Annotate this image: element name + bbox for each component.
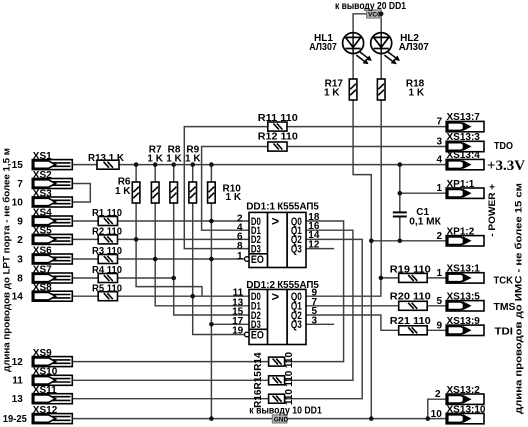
svg-text:R3 110: R3 110 xyxy=(92,246,122,257)
resistor R21 xyxy=(399,326,428,335)
node rail-R6 xyxy=(134,162,139,167)
svg-text:GND: GND xyxy=(274,417,289,424)
resistor R14 xyxy=(269,357,285,366)
resistor R10 vertical xyxy=(208,182,216,203)
wire XS1 to R13 xyxy=(71,164,97,166)
resistor R4 xyxy=(98,274,117,283)
svg-text:XS13:2: XS13:2 xyxy=(447,385,481,396)
wire XS10 to R15 xyxy=(71,379,269,381)
svg-text:к выводу 10 DD1: к выводу 10 DD1 xyxy=(249,406,322,417)
wire R3 to DD1:1 pin1 EO xyxy=(118,258,245,260)
node rail-R10 xyxy=(209,162,214,167)
svg-text:8: 8 xyxy=(17,273,23,284)
svg-text:XS1: XS1 xyxy=(33,151,52,162)
net label GND xyxy=(272,415,288,424)
resistor R7 vertical xyxy=(151,182,159,203)
svg-text:XS11: XS11 xyxy=(33,385,57,396)
node x211-D3b xyxy=(209,322,214,327)
svg-text:9: 9 xyxy=(17,216,23,227)
svg-text:9: 9 xyxy=(436,320,442,331)
resistor R8 vertical xyxy=(170,182,178,203)
net label VCC xyxy=(367,10,382,19)
svg-text:XS2: XS2 xyxy=(33,170,52,181)
wire R6 top lead xyxy=(135,165,137,182)
svg-text:XS6: XS6 xyxy=(33,245,52,256)
node XP11 xyxy=(398,191,403,196)
svg-text:1 K: 1 K xyxy=(409,88,425,99)
node R8-R4 xyxy=(171,276,176,281)
resistor R3 xyxy=(98,255,117,264)
svg-text:DD1:1: DD1:1 xyxy=(246,202,275,213)
svg-text:14: 14 xyxy=(12,292,24,303)
svg-text:>: > xyxy=(272,289,280,304)
svg-text:XS13:3: XS13:3 xyxy=(447,132,481,143)
connector XS1 xyxy=(32,160,72,170)
connector XS2 xyxy=(32,179,72,189)
svg-text:4: 4 xyxy=(436,155,442,166)
wire R7 top lead xyxy=(154,165,156,182)
svg-text:19-25: 19-25 xyxy=(3,414,27,425)
connector XS13:4 xyxy=(446,159,484,169)
wire R12 to XS13:3 TDO xyxy=(287,146,446,148)
svg-text:R20 110: R20 110 xyxy=(390,292,431,303)
wire DD1:2 Q0 pin9 to R19 TCK xyxy=(306,278,381,296)
LED HL1 xyxy=(343,33,372,65)
node rail-C1 xyxy=(398,162,403,167)
connector XS11 xyxy=(32,394,72,404)
svg-text:АЛ307: АЛ307 xyxy=(309,42,337,53)
wire VCC top bus xyxy=(353,14,381,33)
LED HL2 xyxy=(371,33,400,65)
svg-text:10: 10 xyxy=(431,409,443,420)
svg-text:длина проводов до LPT порта -: длина проводов до LPT порта - не более 1… xyxy=(2,148,12,372)
wire DD1:2 Q3 pin3 stub xyxy=(306,323,334,325)
svg-text:XS10: XS10 xyxy=(33,367,58,378)
svg-text:R13 1 K: R13 1 K xyxy=(88,153,125,164)
svg-text:12: 12 xyxy=(308,239,320,250)
connector XP1:1 xyxy=(446,188,484,198)
wire R19 to XS13:1 xyxy=(427,277,446,279)
wire R11 to XS13:7 xyxy=(287,126,446,128)
svg-text:11: 11 xyxy=(12,376,23,387)
IC DD1:2 K555AP5 xyxy=(245,289,307,345)
svg-text:+3.3V: +3.3V xyxy=(487,158,525,174)
svg-text:XS5: XS5 xyxy=(33,226,52,237)
capacitor C1 xyxy=(393,212,407,216)
wire R9 top lead xyxy=(192,165,194,182)
resistor R11 xyxy=(268,122,287,131)
resistor R16 xyxy=(269,394,285,403)
connector XS13:3 xyxy=(446,141,484,151)
node TCK-R18 xyxy=(379,276,384,281)
resistor R13 xyxy=(97,160,119,169)
node C1-GND xyxy=(398,239,403,244)
svg-text:2: 2 xyxy=(17,235,23,246)
connector XS8 xyxy=(32,291,72,301)
svg-text:DD1:2: DD1:2 xyxy=(246,280,275,291)
node R7-R3 xyxy=(153,257,158,262)
svg-text:XP1:1: XP1:1 xyxy=(447,179,475,190)
connector XS6 xyxy=(32,254,72,264)
svg-text:10: 10 xyxy=(12,197,24,208)
svg-text:Q3: Q3 xyxy=(291,319,302,331)
svg-text:2: 2 xyxy=(436,231,442,242)
svg-text:XS13:1: XS13:1 xyxy=(447,264,481,275)
svg-text:R1 110: R1 110 xyxy=(92,208,122,219)
svg-text:XS4: XS4 xyxy=(33,207,52,218)
connector XS13:10 xyxy=(446,413,484,423)
resistor R20 xyxy=(399,301,428,310)
wire XS13:2 jog to GND rail xyxy=(428,399,446,418)
svg-text:7: 7 xyxy=(17,179,23,190)
wire XS5 to R2 xyxy=(71,238,99,240)
svg-text:XS3: XS3 xyxy=(33,188,52,199)
svg-text:R15: R15 xyxy=(253,371,264,390)
svg-text:19: 19 xyxy=(232,326,244,337)
wire R11 left lead to DD1:1 pin8 D3 xyxy=(184,127,267,249)
node R6-R2 xyxy=(134,237,139,242)
wire R6 column to DD1:2 pin11 jog xyxy=(136,203,202,296)
resistor R15 xyxy=(269,376,285,385)
svg-text:к выводу 20 DD1: к выводу 20 DD1 xyxy=(335,1,406,12)
connector XP1:2 xyxy=(446,236,484,246)
svg-text:R14: R14 xyxy=(253,352,264,371)
svg-text:TMS: TMS xyxy=(494,301,516,313)
svg-text:3: 3 xyxy=(312,315,318,326)
wire R1 to DD1:1 pin2 D0 xyxy=(118,220,250,222)
wire R21 to XS13:9 xyxy=(427,329,446,331)
svg-text:EO: EO xyxy=(251,330,264,342)
wire R2 to DD1:1 pin6 D2 xyxy=(118,238,250,240)
svg-text:1 K: 1 K xyxy=(324,88,340,99)
svg-text:XS13:4: XS13:4 xyxy=(447,150,481,161)
svg-text:7: 7 xyxy=(436,117,442,128)
connector XS13:5 xyxy=(446,301,484,311)
svg-text:1: 1 xyxy=(436,268,442,279)
resistor R19 xyxy=(399,273,428,282)
wire GND bottom rail xyxy=(71,418,447,420)
svg-text:3: 3 xyxy=(436,137,442,148)
connector XS10 xyxy=(32,375,72,385)
svg-text:EO: EO xyxy=(251,254,264,266)
wire XS6 to R3 xyxy=(71,258,99,260)
wire DD1:2 pin17 D3 from x211 column xyxy=(211,323,249,325)
svg-text:TDO: TDO xyxy=(494,140,513,152)
svg-text:АЛ307: АЛ307 xyxy=(399,42,429,53)
node rail-R8 xyxy=(171,162,176,167)
wire R10 bottom lead xyxy=(210,203,212,221)
svg-text:XS8: XS8 xyxy=(33,283,52,294)
wire XS9 to R14 xyxy=(71,361,269,363)
svg-text:5: 5 xyxy=(436,296,442,307)
wire rail to C1 xyxy=(399,165,401,212)
svg-text:R2 110: R2 110 xyxy=(92,227,122,238)
wire HL1 to R17 xyxy=(352,54,354,79)
svg-text:1 K: 1 K xyxy=(226,192,242,203)
svg-text:13: 13 xyxy=(12,394,24,405)
wire +3.3V rail xyxy=(119,164,446,166)
connector XS13:9 xyxy=(446,325,484,335)
svg-text:длина проводов до ИМС - не бол: длина проводов до ИМС - не более 15 см xyxy=(514,183,524,414)
wire DD1:2 Q2 pin5 to R21 TDI xyxy=(306,315,399,330)
node rail-R9 xyxy=(190,162,195,167)
svg-text:>: > xyxy=(272,213,280,228)
connector XS12 xyxy=(32,414,72,424)
node R9-R5 xyxy=(190,294,195,299)
wire R10 column xyxy=(210,165,212,182)
wire DD1:1 Q2 pin14 to R16 xyxy=(285,239,363,398)
wire XS2-XS3 loop xyxy=(71,184,91,203)
wire R20 to XS13:5 xyxy=(427,305,446,307)
svg-text:110: 110 xyxy=(284,370,295,387)
svg-text:XS13:7: XS13:7 xyxy=(447,112,481,123)
wire node column x211 to GND rail xyxy=(210,221,212,419)
svg-text:XS13:9: XS13:9 xyxy=(447,316,481,327)
svg-text:TDI: TDI xyxy=(495,326,514,338)
svg-text:XS12: XS12 xyxy=(33,405,58,416)
wire DD1:1 Q0 pin18 to R14 xyxy=(285,221,344,362)
svg-text:XS7: XS7 xyxy=(33,264,52,275)
wire C1 to GND line xyxy=(399,217,401,241)
node rail-R7 xyxy=(153,162,158,167)
wire XS7 to R4 xyxy=(71,277,99,279)
svg-text:Q3: Q3 xyxy=(291,243,302,255)
wire XP1:1 branch xyxy=(400,192,446,194)
connector XS7 xyxy=(32,273,72,283)
wire TCK node to R19 xyxy=(381,277,399,279)
resistor R2 xyxy=(98,235,117,244)
node XS132-GND xyxy=(426,416,431,421)
node x211-EO1 xyxy=(209,257,214,262)
wire XS8 to R5 xyxy=(71,295,99,297)
node R10-R1 xyxy=(209,219,214,224)
wire R18 to TCK node xyxy=(380,100,382,278)
wire GND to XP1:2 xyxy=(371,240,446,242)
node GND-rail2 xyxy=(369,416,374,421)
svg-text:0,1 МК: 0,1 МК xyxy=(409,217,441,228)
resistor R5 xyxy=(98,292,117,301)
svg-text:XS13:10: XS13:10 xyxy=(447,405,486,416)
node GND-XP12 xyxy=(369,239,374,244)
connector XS13:2 xyxy=(446,394,484,404)
svg-text:XS9: XS9 xyxy=(33,348,52,359)
wire R7 column to DD1:2 pin13 D1 xyxy=(155,203,249,306)
svg-text:110: 110 xyxy=(284,389,295,406)
svg-text:- POWER +: - POWER + xyxy=(487,183,498,236)
wire R5 to DD1:2 pin11 D0 xyxy=(118,295,250,297)
svg-text:12: 12 xyxy=(12,357,24,368)
resistor R6 vertical xyxy=(132,182,140,203)
wire R8 column to DD1:2 pin15 D2 xyxy=(174,203,249,315)
wire R12 left lead to DD1:1 pin4 D1 xyxy=(202,147,268,231)
wire DD1:1 Q1 pin16 to R15 xyxy=(285,230,353,380)
connector XS3 xyxy=(32,197,72,207)
connector XS4 xyxy=(32,216,72,226)
svg-text:R4 110: R4 110 xyxy=(92,265,122,276)
connector XS5 xyxy=(32,234,72,244)
node VCC-HL2 xyxy=(379,12,384,17)
resistor R9 vertical xyxy=(189,182,197,203)
resistor R1 xyxy=(98,217,117,226)
wire HL2 to R18 xyxy=(380,54,382,79)
wire R4 to R8 column xyxy=(118,277,174,279)
svg-text:R21 110: R21 110 xyxy=(390,316,431,327)
svg-text:110: 110 xyxy=(284,351,295,368)
svg-text:R12 110: R12 110 xyxy=(258,132,298,143)
svg-text:15: 15 xyxy=(12,160,24,171)
IC DD1:1 K555AP5 xyxy=(245,212,307,267)
svg-text:R19 110: R19 110 xyxy=(390,265,431,276)
svg-text:XP1:2: XP1:2 xyxy=(447,226,475,237)
wire R8 top lead xyxy=(173,165,175,182)
svg-text:1: 1 xyxy=(237,251,243,262)
wire DD1:1 Q3 pin12 stub xyxy=(306,248,334,250)
svg-text:XS13:5: XS13:5 xyxy=(447,291,481,302)
svg-text:1: 1 xyxy=(436,183,442,194)
wire R17 to GND column xyxy=(353,100,371,419)
svg-text:3: 3 xyxy=(17,254,23,265)
connector XS9 xyxy=(32,357,72,367)
connector XS13:1 xyxy=(446,273,484,283)
svg-text:R11 110: R11 110 xyxy=(258,113,298,124)
resistor R12 xyxy=(268,142,287,151)
svg-text:1 K: 1 K xyxy=(115,186,131,197)
resistor R17 vertical xyxy=(349,79,357,100)
svg-text:R5 110: R5 110 xyxy=(92,283,122,294)
wire XS4 to R1 xyxy=(71,220,99,222)
node x211-GND xyxy=(209,416,214,421)
resistor R18 vertical xyxy=(377,79,385,100)
wire R9 column to DD1:2 pin19 EO xyxy=(193,203,245,335)
svg-text:2: 2 xyxy=(435,389,441,400)
svg-text:TCK: TCK xyxy=(494,275,514,287)
wire XS11 to R16 xyxy=(71,398,269,400)
wire DD1:2 Q1 pin7 to R20 TMS xyxy=(306,305,399,307)
connector XS13:7 xyxy=(446,121,484,131)
